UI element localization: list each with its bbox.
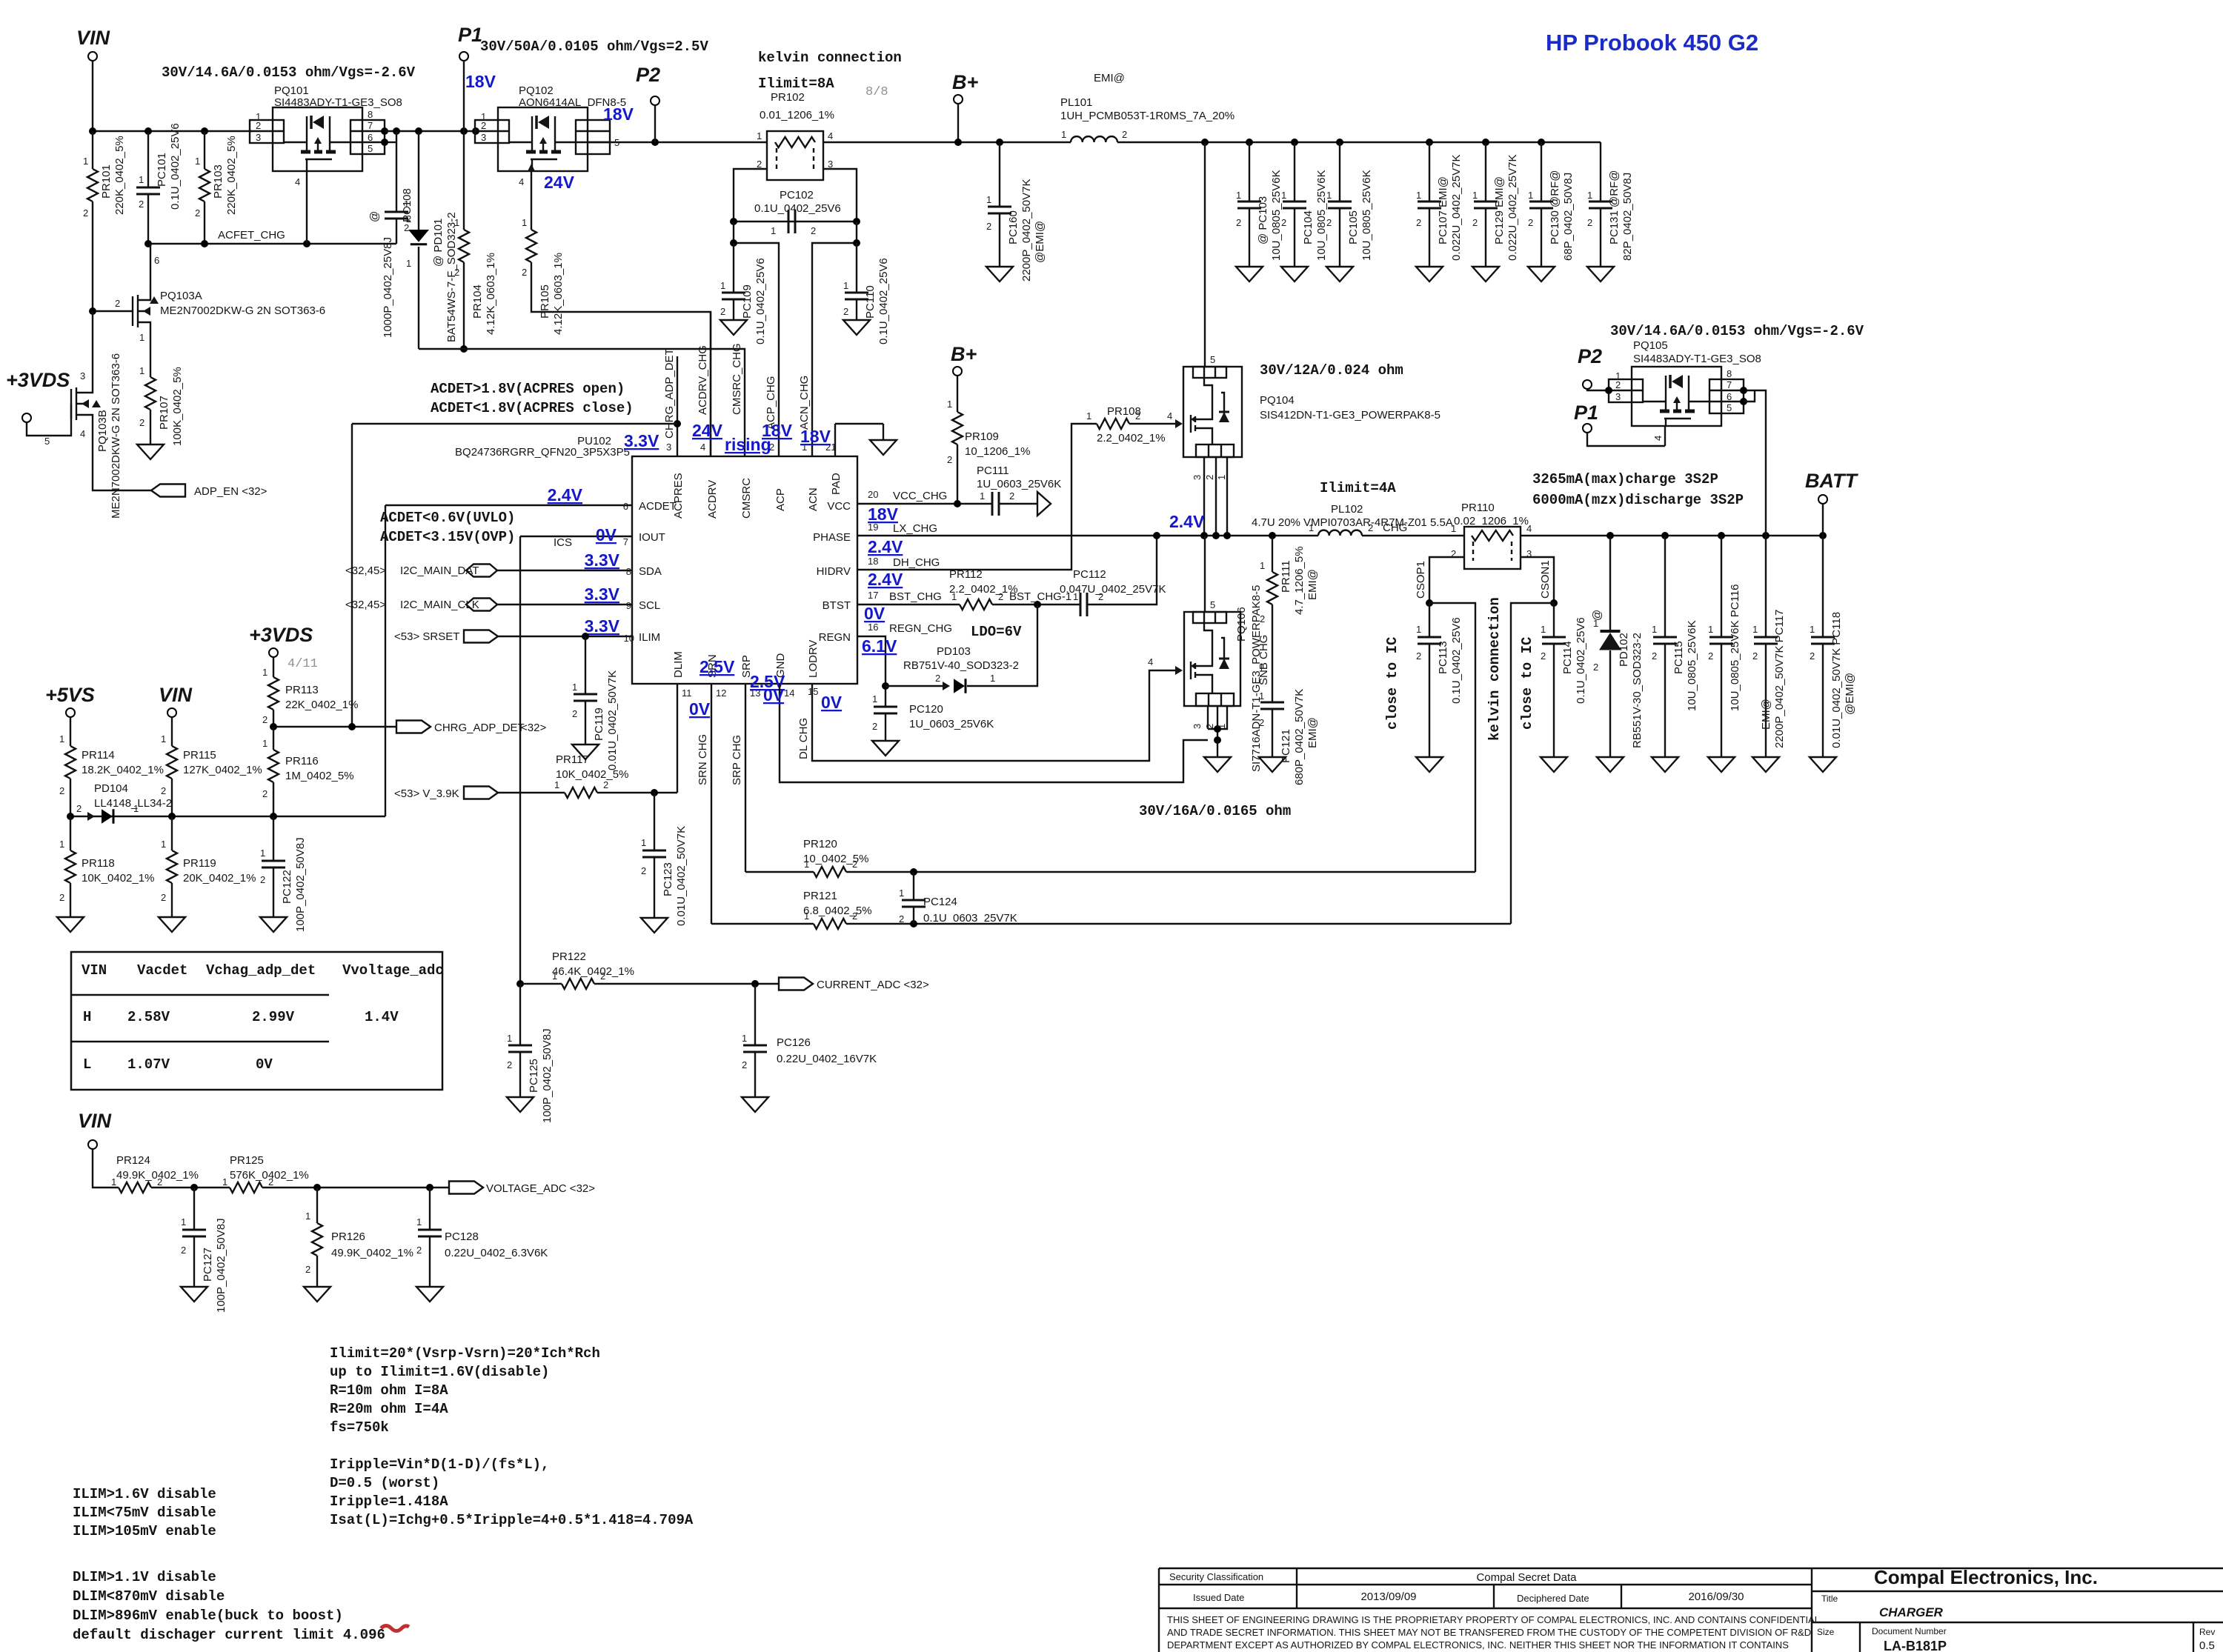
wire CHRG_ADP_DET loop left xyxy=(351,424,353,727)
svg-text:2: 2 xyxy=(986,221,991,232)
svg-text:DH_CHG: DH_CHG xyxy=(893,556,940,569)
junction B+ xyxy=(954,139,962,146)
svg-text:2: 2 xyxy=(852,859,857,870)
svg-text:PR115: PR115 xyxy=(183,749,216,762)
svg-text:1: 1 xyxy=(522,217,527,228)
svg-text:+3VDS: +3VDS xyxy=(6,369,70,391)
junction ACPRES loop xyxy=(674,420,681,427)
svg-text:46.4K_0402_1%: 46.4K_0402_1% xyxy=(552,965,634,978)
wire PC107 EMI@ lead1 xyxy=(1429,142,1430,201)
ground PC127 xyxy=(181,1287,207,1302)
wire BST_CHG-1 b xyxy=(1087,536,1157,604)
wire PD102 lead2 xyxy=(1609,650,1611,757)
terminal P1 xyxy=(1583,424,1592,433)
ground PC120 xyxy=(872,741,899,756)
svg-text:6: 6 xyxy=(368,132,373,143)
terminal BATT xyxy=(1818,495,1827,504)
ground PC104 xyxy=(1281,267,1308,282)
svg-text:1: 1 xyxy=(843,280,848,291)
svg-text:1: 1 xyxy=(742,1033,747,1044)
wire SRN to PR121 xyxy=(711,923,814,925)
wire rail PQ101-PQ102 xyxy=(385,130,475,132)
wire PR119 lead1 xyxy=(171,816,173,850)
svg-text:PC109: PC109 xyxy=(741,284,754,319)
svg-text:1: 1 xyxy=(416,1216,422,1228)
wire SDA xyxy=(497,570,632,571)
junction EMI@ top xyxy=(1426,139,1433,146)
svg-text:PC129 EMI@: PC129 EMI@ xyxy=(1493,176,1506,244)
svg-text:Vchag_adp_det: Vchag_adp_det xyxy=(206,962,316,979)
junction PC126 top xyxy=(751,980,759,987)
svg-text:2: 2 xyxy=(115,298,120,309)
wire PQ103A source xyxy=(150,348,151,377)
svg-text:PR104: PR104 xyxy=(471,284,484,319)
wire PR109 lead2 xyxy=(957,444,958,504)
svg-text:CMSRC_CHG: CMSRC_CHG xyxy=(731,343,743,415)
wire PC123 lead1 xyxy=(654,793,655,850)
junction PC127 top xyxy=(190,1184,198,1191)
svg-text:Security Classification: Security Classification xyxy=(1169,1571,1263,1582)
svg-text:1: 1 xyxy=(1216,475,1227,480)
wire PQ101 pin4 stub xyxy=(306,171,308,244)
svg-text:CHRG_ADP_DET: CHRG_ADP_DET xyxy=(434,722,525,734)
svg-text:17: 17 xyxy=(868,590,878,601)
ground PC126 xyxy=(742,1097,768,1112)
wire P2 to PQ105 xyxy=(1587,389,1609,390)
junction PC102 right xyxy=(853,218,860,225)
svg-text:1: 1 xyxy=(1281,190,1286,201)
svg-text:VIN: VIN xyxy=(82,962,107,979)
svg-text:DLIM<870mV disable: DLIM<870mV disable xyxy=(73,1588,225,1605)
resistor PR107 xyxy=(145,377,156,410)
wire PQ105 out xyxy=(1744,390,1766,536)
svg-text:ACDET>1.8V(ACPRES open): ACDET>1.8V(ACPRES open) xyxy=(431,381,625,397)
svg-text:1: 1 xyxy=(1652,624,1657,635)
wire PC124 lead1 xyxy=(913,872,914,900)
ground @ PC103 xyxy=(1236,267,1263,282)
svg-text:10U_0805_25V6K: 10U_0805_25V6K xyxy=(1360,170,1373,261)
resistor PR126 xyxy=(312,1223,322,1256)
junction @RF@ top xyxy=(1538,139,1545,146)
wire PC130 @RF@ lead1 xyxy=(1541,142,1542,201)
svg-text:10U_0805_25V6K: 10U_0805_25V6K xyxy=(1270,170,1283,261)
wire CSOP1 kelvin down xyxy=(1429,603,1475,872)
svg-text:PR111: PR111 xyxy=(1280,560,1292,593)
svg-text:L: L xyxy=(83,1056,91,1073)
svg-text:10: 10 xyxy=(624,633,634,644)
svg-text:1: 1 xyxy=(1061,129,1066,140)
svg-text:1: 1 xyxy=(757,130,762,141)
svg-text:PR107: PR107 xyxy=(158,396,170,430)
svg-text:PR103: PR103 xyxy=(212,164,225,199)
svg-text:R=20m ohm I=4A: R=20m ohm I=4A xyxy=(330,1401,448,1417)
resistor PR124 xyxy=(119,1182,151,1193)
svg-text:Compal Secret Data: Compal Secret Data xyxy=(1476,1571,1577,1584)
svg-text:2: 2 xyxy=(507,1059,512,1070)
wire P2 drop xyxy=(654,105,656,142)
svg-text:4: 4 xyxy=(80,428,85,439)
wire PR111 lead1 xyxy=(1272,536,1273,572)
ground PC129 EMI@ xyxy=(1472,267,1499,282)
wire BATT drop xyxy=(1822,504,1824,536)
svg-text:14: 14 xyxy=(784,687,794,699)
svg-text:2: 2 xyxy=(59,785,64,796)
resistor PR114 xyxy=(65,746,76,779)
svg-text:220K_0402_5%: 220K_0402_5% xyxy=(225,136,238,215)
wire PR113 lead2 xyxy=(273,710,274,727)
svg-text:PC131 @RF@: PC131 @RF@ xyxy=(1608,170,1621,244)
wire PC113 lead1 xyxy=(1429,603,1430,637)
capacitor PC108 xyxy=(385,212,408,219)
svg-text:0.1U_0603_25V7K: 0.1U_0603_25V7K xyxy=(923,912,1017,925)
svg-text:1: 1 xyxy=(554,779,559,790)
svg-text:SDA: SDA xyxy=(639,565,662,578)
transistor PQ103B ME2N7002DKW xyxy=(27,386,151,490)
svg-text:2: 2 xyxy=(1416,650,1421,662)
svg-text:<32,45>: <32,45> xyxy=(345,599,386,611)
svg-text:16: 16 xyxy=(868,622,878,633)
svg-text:2: 2 xyxy=(1472,217,1478,228)
junction PQ106 s1 xyxy=(1214,725,1221,733)
svg-text:1: 1 xyxy=(139,365,144,376)
svg-text:PC119: PC119 xyxy=(593,707,605,741)
capacitor PC127 xyxy=(182,1230,206,1236)
svg-text:1: 1 xyxy=(980,490,985,502)
wire PC107 EMI@ lead2 xyxy=(1429,208,1430,267)
svg-text:2.4V: 2.4V xyxy=(1169,512,1205,531)
svg-text:2: 2 xyxy=(76,803,82,814)
wire PAD gnd stem xyxy=(883,424,884,440)
svg-text:8: 8 xyxy=(368,109,373,120)
resistor PR102 element xyxy=(775,137,815,147)
svg-text:VCC_CHG: VCC_CHG xyxy=(893,490,947,502)
junction CSOP1 xyxy=(1426,599,1433,607)
wire PC125 lead1 xyxy=(519,984,521,1045)
junction ACFET PC101 xyxy=(144,240,152,247)
svg-text:PHASE: PHASE xyxy=(813,531,851,544)
svg-text:680P_0402_50V7K: 680P_0402_50V7K xyxy=(1293,689,1306,785)
wire PC111 out xyxy=(999,503,1037,504)
svg-text:PR109: PR109 xyxy=(965,430,999,443)
svg-text:2.4V: 2.4V xyxy=(868,570,903,589)
wire CMSRC_CHG xyxy=(419,349,745,456)
svg-text:8/8: 8/8 xyxy=(865,85,888,99)
wire PQ102 pin4 / PR105 lead1 xyxy=(531,171,532,230)
svg-text:PQ101: PQ101 xyxy=(274,84,309,97)
svg-text:2: 2 xyxy=(603,779,608,790)
svg-text:LODRV: LODRV xyxy=(807,640,820,678)
resistor PR113 xyxy=(268,677,279,710)
junction PC123 xyxy=(651,789,658,796)
svg-text:2013/09/09: 2013/09/09 xyxy=(1360,1591,1416,1603)
wire PR104 lead2 xyxy=(463,262,465,349)
transistor PQ106 SI7716ADN POWERPAK8-5 xyxy=(1184,612,1240,706)
ground PD102 xyxy=(1597,757,1624,772)
svg-text:4: 4 xyxy=(295,176,300,187)
svg-text:1: 1 xyxy=(1416,624,1421,635)
svg-text:ACN: ACN xyxy=(807,487,820,511)
svg-text:0.1U_0402_25V6: 0.1U_0402_25V6 xyxy=(169,123,182,210)
svg-text:PR120: PR120 xyxy=(803,838,837,850)
svg-text:6.8_0402_5%: 6.8_0402_5% xyxy=(803,905,872,917)
svg-text:@: @ xyxy=(368,211,381,222)
wire PD101 lead1 xyxy=(418,131,419,230)
wire PC110 lead1 xyxy=(856,243,857,293)
wire PR122 to CURRENT_ADC xyxy=(594,983,779,985)
svg-text:PQ104: PQ104 xyxy=(1260,394,1295,407)
capacitor PC129 xyxy=(1474,201,1498,208)
svg-text:BATT: BATT xyxy=(1805,470,1858,492)
junction PQ101 pin7 xyxy=(381,127,388,135)
svg-text:2: 2 xyxy=(1593,662,1598,673)
svg-text:3: 3 xyxy=(828,159,833,170)
svg-text:P1: P1 xyxy=(458,24,482,46)
svg-text:3: 3 xyxy=(80,370,85,382)
capacitor PC120 xyxy=(874,707,897,713)
junction PC124 top xyxy=(910,868,917,876)
wire P1 to PQ105 pin4 xyxy=(1587,433,1665,446)
svg-text:20: 20 xyxy=(868,489,878,500)
svg-text:7: 7 xyxy=(1727,379,1732,390)
svg-text:1U_0603_25V6K: 1U_0603_25V6K xyxy=(977,478,1061,490)
junction PQ105 pin7 xyxy=(1740,387,1747,394)
small arrow PD103 xyxy=(943,682,950,690)
svg-text:2: 2 xyxy=(83,207,88,219)
svg-text:P1: P1 xyxy=(1574,402,1598,424)
svg-text:BST_CHG: BST_CHG xyxy=(889,590,942,603)
svg-text:20K_0402_1%: 20K_0402_1% xyxy=(183,872,256,885)
svg-text:30V/14.6A/0.0153 ohm/Vgs=-2.6V: 30V/14.6A/0.0153 ohm/Vgs=-2.6V xyxy=(162,64,416,81)
svg-text:2: 2 xyxy=(1541,650,1546,662)
junction P2 pin xyxy=(1605,387,1612,394)
svg-text:PC125: PC125 xyxy=(528,1059,540,1093)
net tag VOLTAGE_ADC xyxy=(449,1182,483,1194)
junction PR103 top xyxy=(201,127,208,135)
svg-text:3: 3 xyxy=(666,442,671,453)
svg-text:DL CHG: DL CHG xyxy=(797,718,810,759)
wire PC126 lead2 xyxy=(754,1052,756,1097)
resistor PR101 xyxy=(87,169,98,201)
junction PC101 top xyxy=(144,127,152,135)
svg-text:0.01U_0402_50V7K: 0.01U_0402_50V7K xyxy=(606,670,619,770)
svg-text:ILIM>105mV enable: ILIM>105mV enable xyxy=(73,1523,216,1539)
svg-text:4: 4 xyxy=(1526,523,1532,534)
svg-text:PC104: PC104 xyxy=(1302,210,1315,244)
wire PC104 lead1 xyxy=(1294,142,1295,201)
wire PR126 lead1 xyxy=(316,1188,318,1223)
svg-text:0V: 0V xyxy=(596,525,617,544)
svg-text:PC130 @RF@: PC130 @RF@ xyxy=(1549,170,1561,244)
junction PQ104 s3 xyxy=(1223,532,1231,539)
svg-text:REGN_CHG: REGN_CHG xyxy=(889,622,952,635)
capacitor PC102 xyxy=(788,210,795,233)
wire ACDRV_CHG xyxy=(531,262,711,456)
inductor PL101 xyxy=(1071,136,1117,142)
wire @ PC103 lead1 xyxy=(1249,142,1250,201)
svg-text:1: 1 xyxy=(111,1176,116,1188)
svg-text:1: 1 xyxy=(1216,724,1227,729)
wire P1 drop xyxy=(463,61,465,131)
svg-text:3.3V: 3.3V xyxy=(585,616,620,636)
svg-text:8: 8 xyxy=(626,566,631,577)
svg-text:3.3V: 3.3V xyxy=(585,550,620,570)
wire PR117 to DLIM xyxy=(597,792,677,793)
svg-text:DLIM>1.1V disable: DLIM>1.1V disable xyxy=(73,1569,216,1585)
wire PQ104 pin2 xyxy=(1215,457,1217,536)
svg-text:Ilimit=8A: Ilimit=8A xyxy=(758,76,834,92)
svg-text:220K_0402_5%: 220K_0402_5% xyxy=(113,136,126,215)
svg-text:5: 5 xyxy=(368,143,373,154)
svg-text:2: 2 xyxy=(1416,217,1421,228)
svg-text:2: 2 xyxy=(1122,129,1127,140)
svg-text:ILIM<75mV disable: ILIM<75mV disable xyxy=(73,1505,216,1521)
svg-text:1UH_PCMB053T-1R0MS_7A_20%: 1UH_PCMB053T-1R0MS_7A_20% xyxy=(1060,110,1235,122)
svg-text:ICS: ICS xyxy=(554,536,572,549)
svg-text:0V: 0V xyxy=(689,699,711,719)
inductor PL102 xyxy=(1318,530,1362,536)
wire ACDET xyxy=(385,504,632,506)
ground PR107 xyxy=(137,444,164,459)
svg-text:0.1U_0402_25V6: 0.1U_0402_25V6 xyxy=(754,258,767,344)
wire PR121 to CSON1 xyxy=(846,923,1511,925)
svg-text:SI7716ADN-T1-GE3_POWERPAK8-5: SI7716ADN-T1-GE3_POWERPAK8-5 xyxy=(1250,585,1263,772)
svg-text:1: 1 xyxy=(305,1210,310,1222)
svg-text:1: 1 xyxy=(83,156,88,167)
svg-text:1: 1 xyxy=(507,1033,512,1044)
wire PC129 EMI@ lead2 xyxy=(1485,208,1486,267)
svg-text:@EMI@: @EMI@ xyxy=(1844,673,1856,715)
wire B+ drop xyxy=(957,104,959,142)
resistor PR105 xyxy=(526,230,536,262)
svg-text:2: 2 xyxy=(1204,475,1215,480)
svg-text:1000P_0402_25V8J: 1000P_0402_25V8J xyxy=(382,237,394,338)
svg-text:30V/16A/0.0165 ohm: 30V/16A/0.0165 ohm xyxy=(1139,803,1291,819)
capacitor PC111 xyxy=(992,492,999,516)
svg-text:1: 1 xyxy=(1752,624,1758,635)
wire PR102 pin2 xyxy=(734,169,767,222)
svg-text:PR119: PR119 xyxy=(183,857,216,870)
gate arrow PQ104 xyxy=(1175,419,1183,428)
svg-text:2.58V: 2.58V xyxy=(127,1009,170,1025)
svg-text:Ilimit=20*(Vsrp-Vsrn)=20*Ich*R: Ilimit=20*(Vsrp-Vsrn)=20*Ich*Rch xyxy=(330,1345,600,1362)
wire CHG to PR110 xyxy=(1362,535,1464,536)
svg-text:PL101: PL101 xyxy=(1060,96,1092,109)
transistor PQ105 SI4483ADY SO8 xyxy=(1609,367,1744,426)
wire LODRV / DL_CHG xyxy=(812,670,1178,761)
svg-text:PC111: PC111 xyxy=(977,464,1009,477)
svg-text:3: 3 xyxy=(1192,475,1203,480)
svg-text:6: 6 xyxy=(154,255,159,266)
svg-text:ME2N7002DKW-G 2N SOT363-6: ME2N7002DKW-G 2N SOT363-6 xyxy=(110,353,122,519)
terminal B+ xyxy=(954,95,963,104)
svg-text:2: 2 xyxy=(522,267,527,278)
wire ILIM/SRSET xyxy=(498,636,632,637)
svg-text:2: 2 xyxy=(1752,650,1758,662)
capacitor PC122 xyxy=(262,861,285,867)
capacitor PC112 xyxy=(1080,593,1087,616)
svg-text:18V: 18V xyxy=(762,421,793,440)
svg-text:2.99V: 2.99V xyxy=(252,1009,295,1025)
wire VCC_CHG xyxy=(857,503,992,504)
wire PC123 lead2 xyxy=(654,857,655,918)
svg-text:H: H xyxy=(83,1009,91,1025)
junction VIN rail xyxy=(89,127,96,135)
svg-text:PC124: PC124 xyxy=(923,896,957,908)
svg-text:PR102: PR102 xyxy=(771,91,805,104)
resistor PR102 0.01 1206 (kelvin) xyxy=(767,131,823,180)
svg-text:2: 2 xyxy=(139,199,144,210)
svg-text:0.01U_0402_50V7K PC118: 0.01U_0402_50V7K PC118 xyxy=(1830,612,1843,748)
svg-text:24V: 24V xyxy=(544,173,575,192)
resistor PR121 xyxy=(814,919,846,929)
svg-text:2: 2 xyxy=(1587,217,1592,228)
svg-text:10K_0402_5%: 10K_0402_5% xyxy=(556,768,628,781)
svg-text:1: 1 xyxy=(262,738,268,749)
svg-text:2: 2 xyxy=(262,714,268,725)
wire ICS to PR122 xyxy=(520,983,562,985)
wire ACDRV stub xyxy=(710,312,711,456)
svg-text:PC123: PC123 xyxy=(662,862,674,896)
diode PD103 RB751V-40 xyxy=(954,679,966,693)
wire PR120 to CSOP1 xyxy=(846,871,1475,873)
capacitor PC119 xyxy=(574,694,597,701)
junction PD101 xyxy=(415,127,422,135)
resistor PR110 0.02 1206 (kelvin) xyxy=(1464,527,1521,569)
junction PC119 xyxy=(582,633,589,640)
wire PC122 lead1 xyxy=(273,816,274,861)
svg-text:82P_0402_50V8J: 82P_0402_50V8J xyxy=(1621,173,1634,261)
red marker scribble xyxy=(381,1626,409,1631)
svg-text:2: 2 xyxy=(899,913,904,925)
wire VIN drop xyxy=(92,61,93,131)
svg-text:Ilimit=4A: Ilimit=4A xyxy=(1320,480,1396,496)
transistor PQ103A ME2N7002DKW xyxy=(133,282,150,348)
capacitor PC113 xyxy=(1418,637,1441,644)
ground PC114 xyxy=(1541,757,1567,772)
capacitor PC123 xyxy=(642,850,666,857)
svg-text:kelvin connection: kelvin connection xyxy=(758,50,902,66)
svg-text:3: 3 xyxy=(256,132,261,143)
svg-text:PD104: PD104 xyxy=(94,782,128,795)
terminal +3VDS xyxy=(22,413,31,422)
wire ACDET to divider xyxy=(385,505,386,816)
junction PC110 top xyxy=(853,239,860,247)
svg-text:PR117: PR117 xyxy=(556,753,589,766)
svg-text:ILIM>1.6V disable: ILIM>1.6V disable xyxy=(73,1486,216,1502)
svg-text:0V: 0V xyxy=(864,604,885,623)
svg-text:3.3V: 3.3V xyxy=(624,431,659,450)
ground PC119 xyxy=(572,745,599,759)
capacitor PC121 xyxy=(1260,702,1284,709)
wire PC108 lead2 xyxy=(396,219,397,244)
wire PD103 anode xyxy=(885,685,948,687)
wire PC109 lead2 xyxy=(733,299,734,320)
svg-text:Issued Date: Issued Date xyxy=(1193,1592,1244,1603)
svg-text:1: 1 xyxy=(404,199,409,210)
wire PC127 lead1 xyxy=(193,1188,195,1230)
svg-text:kelvin connection: kelvin connection xyxy=(1486,597,1503,741)
capacitor PC107 xyxy=(1418,201,1441,208)
svg-text:REGN: REGN xyxy=(819,631,851,644)
svg-text:30V/50A/0.0105 ohm/Vgs=2.5V: 30V/50A/0.0105 ohm/Vgs=2.5V xyxy=(480,39,708,55)
svg-text:2: 2 xyxy=(256,120,261,131)
svg-text:1: 1 xyxy=(1451,523,1456,534)
wire PC119 lead2 xyxy=(585,701,586,745)
svg-text:PC114: PC114 xyxy=(1561,641,1574,674)
resistor PR119 xyxy=(167,850,177,883)
ground PQ106 xyxy=(1204,757,1231,772)
junction PC105 top xyxy=(1336,139,1343,146)
